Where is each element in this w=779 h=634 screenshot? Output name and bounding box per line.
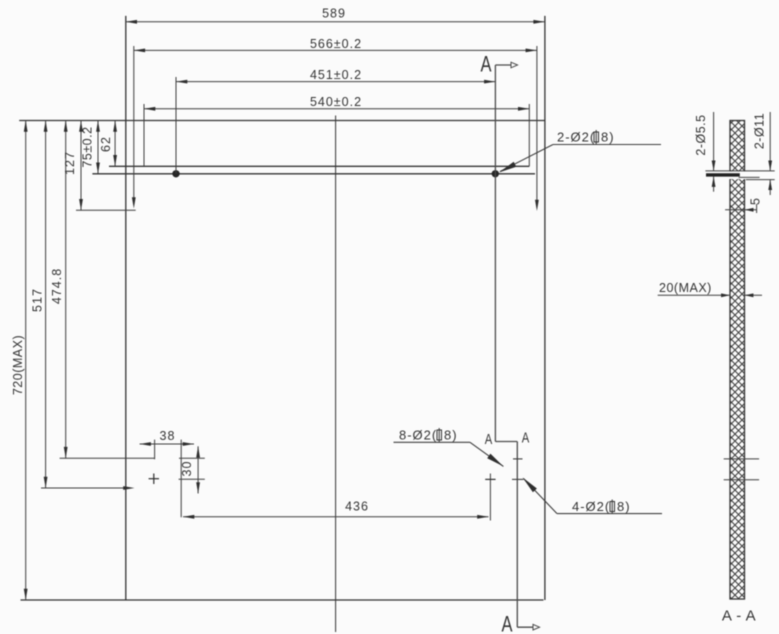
svg-text:2-Ø2(: 2-Ø2(	[557, 130, 595, 145]
bar bottom hole ticks	[724, 459, 759, 480]
svg-text:38: 38	[160, 429, 176, 443]
plate bottom edge	[21, 599, 544, 601]
svg-text:20(MAX): 20(MAX)	[659, 281, 712, 295]
svg-text:A - A: A - A	[722, 608, 756, 625]
dimension 566±0.2	[134, 46, 537, 207]
svg-text:A: A	[481, 52, 492, 77]
svg-text:A: A	[522, 431, 530, 447]
dimension 2-Ø11	[769, 112, 771, 195]
hole right 2-Ø2	[492, 170, 499, 177]
section line hole ticks	[512, 459, 523, 480]
section line A-A	[495, 65, 533, 627]
svg-text:8-Ø2(: 8-Ø2(	[399, 428, 437, 443]
plate left edge	[125, 16, 127, 600]
dimension 20(MAX)	[658, 294, 762, 296]
hole row line	[92, 173, 535, 175]
svg-text:8): 8)	[444, 428, 458, 443]
dimension 436	[183, 474, 490, 521]
bar hole cut white band	[729, 171, 746, 179]
svg-text:589: 589	[322, 7, 346, 21]
566 left extension end arrow	[132, 197, 136, 208]
hole left 2-Ø2	[172, 170, 179, 177]
svg-text:517: 517	[31, 288, 45, 312]
svg-text:2-Ø5.5: 2-Ø5.5	[694, 114, 708, 155]
svg-text:127: 127	[63, 151, 77, 175]
leader 2-Ø2	[500, 145, 661, 172]
svg-text:75±0.2: 75±0.2	[81, 126, 95, 167]
svg-text:451±0.2: 451±0.2	[310, 68, 362, 82]
svg-text:4-Ø2(: 4-Ø2(	[572, 499, 610, 514]
leader 8-Ø2	[394, 442, 504, 466]
dimension 2-Ø5.5	[713, 112, 715, 192]
svg-text:5: 5	[749, 198, 763, 205]
svg-text:8): 8)	[617, 499, 631, 514]
svg-text:A: A	[502, 612, 513, 634]
hole center cross right	[485, 478, 495, 480]
dimension 517	[41, 121, 130, 489]
svg-text:436: 436	[345, 500, 369, 514]
svg-text:720(MAX): 720(MAX)	[11, 335, 25, 395]
svg-text:566±0.2: 566±0.2	[310, 37, 362, 51]
dimension 62	[114, 121, 116, 167]
dimension 589	[126, 21, 545, 23]
leader 4-Ø2	[524, 479, 663, 514]
svg-text:30: 30	[180, 461, 194, 477]
svg-text:62: 62	[99, 136, 113, 152]
dimension 720(MAX)	[25, 121, 27, 601]
dimension 127	[76, 121, 136, 211]
svg-text:540±0.2: 540±0.2	[310, 95, 362, 109]
slot top edge	[109, 165, 529, 167]
dimension 38	[140, 440, 194, 518]
dimension 451±0.2	[176, 77, 495, 174]
hole center cross left	[149, 474, 159, 485]
dimension 30	[179, 446, 205, 493]
plate right edge	[544, 16, 546, 600]
566 right extension end arrow	[535, 200, 539, 211]
svg-text:A: A	[485, 432, 493, 448]
dimension 540±0.2	[144, 104, 529, 166]
centerline	[335, 116, 337, 633]
section arrow bottom	[533, 624, 540, 630]
517 extension pointer arrow	[123, 486, 134, 490]
dimension 75±0.2	[97, 121, 99, 174]
dimension 474.8	[60, 121, 155, 459]
section arrow top	[511, 62, 518, 68]
plate top edge	[19, 120, 545, 122]
section bar outline with hatch	[730, 121, 745, 600]
bar hole lines	[705, 171, 774, 180]
svg-text:8): 8)	[601, 130, 615, 145]
svg-text:474.8: 474.8	[50, 268, 64, 304]
dimension 5	[725, 204, 757, 213]
svg-text:2-Ø11: 2-Ø11	[753, 113, 767, 149]
